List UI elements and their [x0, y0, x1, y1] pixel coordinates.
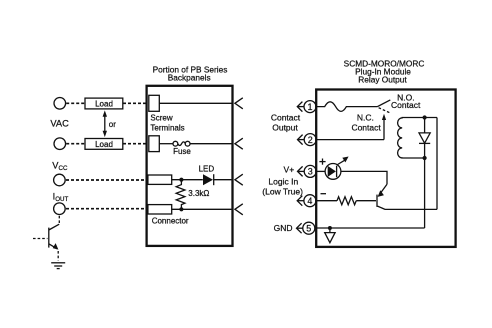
- node junction (GND / ground symbol): [328, 226, 332, 230]
- load box 2: [85, 139, 123, 150]
- label: SCMD-MORO/MORC Plug-In Module Relay Output: [344, 58, 425, 84]
- wire relay armature (flexible lead from terminal 1): [316, 102, 377, 112]
- svg-text:1: 1: [307, 102, 312, 112]
- label V+: [284, 165, 295, 175]
- connector pin rect (IOUT row): [148, 205, 172, 214]
- terminal circle VAC top: [54, 98, 66, 110]
- connector chevron row 3: [235, 174, 243, 185]
- connector pin rect (VCC row): [148, 175, 172, 184]
- terminal 4: [304, 195, 316, 207]
- svg-text:4: 4: [307, 196, 312, 206]
- N.C. contact lead with arrow: [382, 114, 386, 140]
- label: Portion of PB Series / Backpanels: [153, 65, 228, 83]
- ground (module, open triangle): [325, 228, 335, 243]
- resistor 3.3k: [176, 180, 185, 210]
- label VAC: [50, 119, 69, 129]
- plus sign (terminal 3): [319, 159, 325, 165]
- wire (dashed, VCC to backpanel): [66, 179, 146, 181]
- wire (row IOUT): [172, 208, 232, 210]
- wire (dashed, Load 1 to backpanel): [123, 102, 146, 104]
- wire (GND rail, terminal 5): [315, 227, 425, 229]
- terminal 3: [304, 165, 316, 177]
- label VCC: [52, 161, 68, 172]
- load box 1: [85, 98, 123, 109]
- label Fuse: [173, 147, 191, 156]
- LED D1: [203, 174, 232, 185]
- terminal circle VAC bottom: [54, 138, 66, 150]
- wire (resistor to base): [356, 200, 376, 202]
- label N.C. Contact: [351, 112, 381, 132]
- svg-text:Load: Load: [95, 100, 113, 109]
- relay coil K1: [398, 118, 437, 159]
- terminal 5: [303, 222, 315, 234]
- screw terminal 2: [149, 136, 160, 152]
- N.C. contact dashed blade position: [379, 108, 390, 113]
- module box: [316, 90, 455, 247]
- resistor (logic input): [337, 197, 356, 205]
- wire (row VCC to LED): [172, 179, 203, 181]
- wire (dashed, VAC bottom to Load 2): [66, 143, 85, 145]
- terminal circle VCC: [54, 174, 66, 186]
- svg-text:Screw: Screw: [150, 114, 172, 123]
- pin arrow terminal 3: [298, 166, 305, 176]
- svg-text:LED: LED: [199, 164, 215, 173]
- svg-text:or: or: [109, 120, 116, 129]
- label GND: [274, 223, 293, 233]
- svg-text:Logic In: Logic In: [268, 176, 298, 186]
- node junction (coil bottom / diode): [423, 156, 427, 160]
- svg-text:Fuse: Fuse: [173, 147, 191, 156]
- label LED: [199, 164, 215, 173]
- wire (LED to transistor emitter corner): [341, 171, 387, 184]
- svg-text:GND: GND: [274, 223, 293, 233]
- svg-text:Contact: Contact: [271, 112, 301, 122]
- pin arrow terminal 1: [297, 102, 304, 112]
- diode D2 (flyback across coil): [419, 118, 430, 159]
- wire (terminal 2 to N.C. contact): [316, 139, 384, 141]
- label or: [109, 120, 116, 129]
- transistor Q2 (PNP) emitter with arrow: [378, 184, 387, 197]
- pin arrow terminal 2: [298, 135, 305, 145]
- svg-text:3: 3: [308, 167, 313, 177]
- svg-text:Relay Output: Relay Output: [358, 74, 407, 84]
- terminal circle IOUT: [54, 203, 66, 215]
- wire (dashed, Load 2 to backpanel): [123, 143, 146, 145]
- pin arrow terminal 5: [297, 223, 303, 233]
- node junction (VCC row / resistor top): [179, 178, 183, 182]
- svg-text:Terminals: Terminals: [150, 124, 184, 133]
- label IOUT: [53, 192, 69, 203]
- connector chevron row 4: [235, 204, 243, 215]
- svg-text:Output: Output: [272, 122, 298, 132]
- node junction (coil top / diode): [423, 115, 427, 119]
- wire (terminal 3 to LED): [316, 170, 325, 172]
- transistor Q1 (external, NPN open collector): [33, 215, 59, 261]
- label Connector: [152, 217, 189, 226]
- label Logic In (Low True): [262, 176, 303, 196]
- backpanel box: [147, 86, 233, 246]
- transistor Q2 collector: [378, 206, 438, 209]
- terminal 2: [304, 134, 316, 146]
- connector chevron row 1: [235, 98, 243, 109]
- svg-text:Contact: Contact: [351, 123, 381, 133]
- svg-text:5: 5: [306, 224, 311, 234]
- wire (row 1 inside backpanel): [160, 102, 232, 104]
- wire (terminal 4 to resistor): [316, 200, 337, 202]
- svg-text:3.3kΩ: 3.3kΩ: [188, 189, 209, 198]
- label Contact Output: [271, 112, 301, 132]
- ground (left, earth symbol): [51, 263, 65, 269]
- svg-text:Contact: Contact: [391, 100, 421, 110]
- svg-text:Connector: Connector: [152, 217, 189, 226]
- label N.O. Contact: [391, 92, 421, 110]
- wire (diode bottom to GND rail): [424, 158, 426, 228]
- minus sign (terminal 4): [321, 193, 327, 195]
- transistor Q2 base bar: [376, 195, 378, 207]
- svg-text:N.C.: N.C.: [357, 112, 374, 122]
- svg-text:VAC: VAC: [50, 119, 69, 129]
- LED U1 (opto indicator): [325, 157, 349, 180]
- or-arrow (double headed): [103, 110, 107, 137]
- connector chevron row 2: [235, 138, 243, 149]
- screw terminal 1: [149, 95, 160, 111]
- wire (collector riser to relay coil top): [436, 118, 438, 210]
- svg-text:(Low True): (Low True): [262, 186, 303, 196]
- svg-text:Backpanels: Backpanels: [168, 73, 211, 83]
- svg-text:Load: Load: [95, 140, 113, 149]
- label 3.3kOhm: [188, 189, 209, 198]
- wire (dashed, VAC top to Load 1): [66, 102, 85, 104]
- node junction (IOUT row / resistor bottom): [179, 207, 183, 211]
- terminal 1: [304, 101, 316, 113]
- svg-text:2: 2: [308, 135, 313, 145]
- pin arrow terminal 4: [297, 196, 304, 206]
- svg-text:V+: V+: [284, 165, 295, 175]
- label Screw Terminals: [150, 114, 184, 133]
- N.O. contact blade: [378, 100, 391, 107]
- wire (dashed, IOUT to backpanel): [66, 208, 146, 210]
- fuse F1: [160, 141, 232, 146]
